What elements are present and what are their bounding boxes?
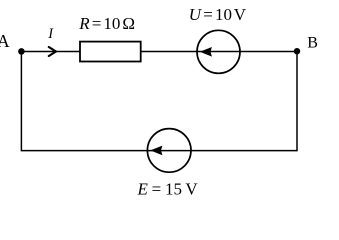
svg-text:U = 10 V: U = 10 V (189, 5, 247, 24)
svg-text:E = 15 V: E = 15 V (137, 180, 199, 199)
svg-text:R = 10 Ω: R = 10 Ω (78, 14, 135, 33)
svg-text:B: B (307, 34, 318, 51)
svg-text:A: A (0, 31, 10, 51)
svg-text:I: I (47, 26, 54, 42)
